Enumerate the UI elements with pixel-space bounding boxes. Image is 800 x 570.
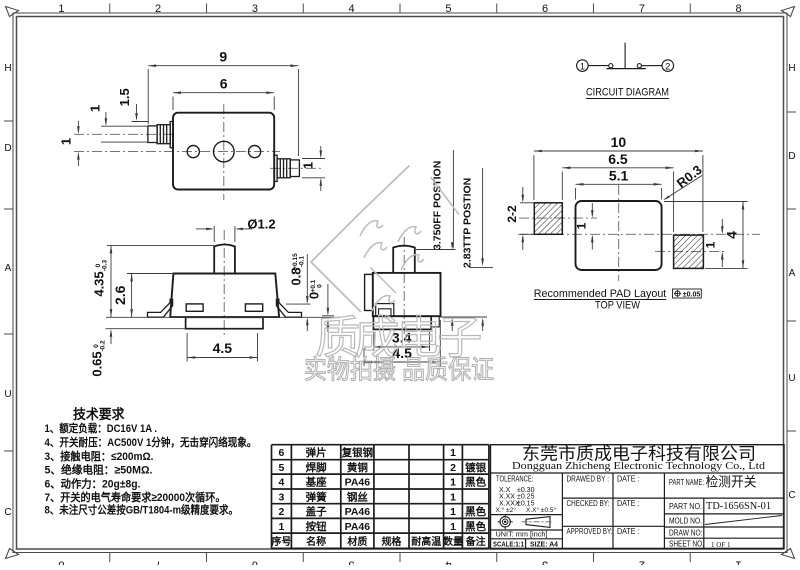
svg-text:-0.3: -0.3 bbox=[102, 260, 109, 272]
side view centerline bbox=[403, 237, 405, 334]
svg-text:±0.05: ±0.05 bbox=[683, 292, 701, 299]
side view inner pin bbox=[376, 304, 394, 317]
front view button bbox=[214, 245, 235, 274]
svg-text:H: H bbox=[788, 63, 795, 74]
dimension 1 right pad offset bbox=[704, 219, 724, 267]
circuit wire left bbox=[588, 65, 609, 67]
dimension 4 pad overall height bbox=[664, 202, 748, 269]
side view button bbox=[393, 246, 415, 273]
svg-text:5、绝缘电阻：≥50MΩ.: 5、绝缘电阻：≥50MΩ. bbox=[45, 463, 153, 477]
corner centering mark bottom-right bbox=[782, 549, 795, 559]
top view left stub centerline bbox=[74, 133, 176, 135]
front view bottom plate bbox=[186, 317, 263, 328]
top view right stub plug bbox=[274, 155, 299, 181]
top view centerline horizontal bbox=[74, 151, 280, 153]
svg-text:10: 10 bbox=[611, 134, 627, 150]
top view center hole bbox=[214, 141, 235, 162]
svg-text:实物拍摄 品质保证: 实物拍摄 品质保证 bbox=[304, 355, 494, 385]
position tolerance box bbox=[673, 289, 702, 299]
svg-text:盖子: 盖子 bbox=[306, 505, 327, 518]
top view left hole bbox=[187, 146, 199, 158]
top view right hole bbox=[249, 146, 261, 158]
svg-text:数量: 数量 bbox=[443, 535, 463, 548]
dimension 0.65 plate height bbox=[90, 329, 113, 377]
bottom zone tick marks bbox=[110, 553, 691, 563]
svg-text:8、未注尺寸公差按GB/T1804-m级精度要求。: 8、未注尺寸公差按GB/T1804-m级精度要求。 bbox=[45, 503, 239, 517]
svg-text:DATE :: DATE : bbox=[617, 527, 640, 536]
left zone letters bbox=[4, 63, 11, 518]
svg-text:A: A bbox=[5, 263, 12, 274]
svg-text:SIZE: A4: SIZE: A4 bbox=[530, 539, 559, 548]
radius leader R0.3 bbox=[663, 162, 704, 200]
svg-text:U: U bbox=[4, 389, 11, 400]
svg-text:7、开关的电气寿命要求≥20000次循环。: 7、开关的电气寿命要求≥20000次循环。 bbox=[45, 490, 226, 504]
svg-text:复银钢: 复银钢 bbox=[341, 446, 374, 459]
dimension 4.5 plate width bbox=[187, 333, 257, 362]
svg-text:名称: 名称 bbox=[306, 535, 326, 548]
svg-text:1: 1 bbox=[450, 447, 456, 459]
dimension 2-2 left pad bbox=[505, 187, 534, 250]
part name field bbox=[669, 475, 757, 490]
svg-text:A: A bbox=[789, 268, 796, 279]
svg-text:MOLD NO.: MOLD NO. bbox=[669, 517, 702, 526]
svg-text:1: 1 bbox=[575, 222, 589, 229]
corner centering mark bottom-left bbox=[6, 549, 19, 559]
circuit diagram label bbox=[586, 87, 669, 99]
front view right window bbox=[245, 304, 262, 311]
svg-text:1.5: 1.5 bbox=[117, 88, 132, 106]
side view body bbox=[373, 273, 441, 316]
svg-text:3: 3 bbox=[542, 559, 548, 566]
svg-text:3、接触电阻：≤200mΩ.: 3、接触电阻：≤200mΩ. bbox=[45, 449, 154, 463]
top view left stub plug bbox=[148, 122, 173, 148]
dimension 0.8 foot height bbox=[289, 253, 309, 331]
svg-text:DATE :: DATE : bbox=[617, 499, 640, 508]
svg-text:0: 0 bbox=[317, 284, 324, 288]
svg-text:2: 2 bbox=[450, 462, 456, 474]
svg-text:-0.2: -0.2 bbox=[100, 340, 107, 352]
pad layout horizontal centerline bbox=[518, 233, 760, 235]
svg-text:2: 2 bbox=[665, 61, 670, 72]
svg-text:1: 1 bbox=[450, 491, 456, 503]
scale and size row bbox=[493, 539, 559, 548]
pad layout vertical centerline bbox=[618, 185, 620, 281]
svg-text:5: 5 bbox=[279, 462, 285, 474]
side view right step bbox=[431, 316, 439, 327]
svg-text:7: 7 bbox=[639, 3, 645, 15]
svg-text:SHEET NO.: SHEET NO. bbox=[669, 539, 704, 548]
front view left leg bbox=[148, 299, 173, 317]
svg-text:1: 1 bbox=[450, 521, 456, 533]
svg-text:3: 3 bbox=[252, 3, 258, 15]
svg-text:7: 7 bbox=[155, 559, 161, 566]
svg-text:1: 1 bbox=[580, 61, 585, 72]
svg-text:5.1: 5.1 bbox=[609, 167, 629, 183]
svg-text:1: 1 bbox=[279, 521, 285, 533]
seating plane line bbox=[106, 316, 340, 318]
svg-text:TOLERANCE:: TOLERANCE: bbox=[496, 475, 534, 484]
svg-text:镀银: 镀银 bbox=[465, 461, 486, 474]
svg-text:4: 4 bbox=[724, 231, 740, 239]
svg-text:CHECKED BY:: CHECKED BY: bbox=[567, 499, 610, 508]
dimension 4.35 text with tolerance bbox=[92, 260, 109, 297]
watermark logo chevron bbox=[311, 166, 459, 313]
sheet no field bbox=[669, 539, 731, 549]
svg-text:6: 6 bbox=[542, 3, 548, 15]
front view right leg bbox=[276, 299, 301, 317]
svg-text:3: 3 bbox=[279, 491, 285, 503]
svg-text:2.83TTP POSTION: 2.83TTP POSTION bbox=[461, 178, 473, 268]
svg-text:X.° ±2°: X.° ±2° bbox=[496, 506, 517, 514]
button top extension line bbox=[416, 249, 456, 251]
svg-text:PA46: PA46 bbox=[345, 506, 371, 518]
svg-text:2.6: 2.6 bbox=[112, 285, 128, 305]
svg-text:PART NAME:: PART NAME: bbox=[669, 478, 704, 487]
svg-text:2: 2 bbox=[639, 559, 645, 566]
dimension 0 coplanarity bbox=[307, 279, 335, 332]
pressed position line bbox=[470, 266, 493, 268]
svg-text:U: U bbox=[788, 373, 795, 384]
svg-text:C: C bbox=[788, 490, 795, 501]
svg-text:UNIT: mm [inch]: UNIT: mm [inch] bbox=[496, 530, 548, 539]
svg-text:6: 6 bbox=[279, 447, 285, 459]
plate bottom extension line bbox=[106, 328, 187, 330]
signature rows bbox=[567, 475, 640, 536]
part no field bbox=[669, 501, 771, 512]
circuit wire right bbox=[641, 65, 662, 67]
dimension 5.1 body width pad bbox=[576, 167, 662, 199]
svg-text:D: D bbox=[4, 143, 11, 154]
svg-text:1: 1 bbox=[736, 559, 742, 566]
svg-text:基座: 基座 bbox=[305, 476, 327, 489]
dimension 1 right stub bbox=[301, 146, 326, 191]
front view left window bbox=[186, 304, 203, 311]
svg-text:2: 2 bbox=[279, 506, 285, 518]
side view bracket plate bbox=[365, 274, 373, 310]
dimension 3.4 protrusion width bbox=[374, 330, 430, 352]
svg-text:1: 1 bbox=[450, 506, 456, 518]
title block outline bbox=[491, 445, 785, 549]
right pad centerline bbox=[655, 251, 727, 253]
svg-text:弹片: 弹片 bbox=[306, 446, 327, 459]
front view body bbox=[170, 274, 279, 318]
dimension 1.5 stub offset bbox=[117, 88, 148, 121]
technical requirements list bbox=[45, 421, 257, 517]
svg-text:弹簧: 弹簧 bbox=[306, 490, 327, 503]
svg-text:5: 5 bbox=[349, 559, 355, 566]
svg-text:3.750FF POSTION: 3.750FF POSTION bbox=[432, 161, 444, 250]
top view right stub centerline bbox=[270, 167, 322, 169]
svg-text:1、额定负载：DC16V 1A .: 1、额定负载：DC16V 1A . bbox=[45, 421, 158, 435]
svg-text:4: 4 bbox=[445, 559, 451, 566]
dimension 1 left pad offset bbox=[575, 203, 594, 250]
right solder pad hatched bbox=[674, 235, 704, 268]
circuit actuator line bbox=[624, 43, 626, 69]
left pad centerline bbox=[519, 217, 597, 219]
top view switch body bbox=[173, 113, 274, 190]
corner centering mark top-left bbox=[6, 7, 19, 17]
svg-text:2: 2 bbox=[155, 3, 161, 15]
projection symbol bbox=[498, 514, 554, 529]
recommended pad layout label bbox=[534, 288, 667, 300]
svg-text:SCALE:1:1: SCALE:1:1 bbox=[493, 539, 524, 548]
svg-text:4.35: 4.35 bbox=[92, 271, 107, 296]
svg-text:8: 8 bbox=[58, 559, 64, 566]
top zone digits 1-8 bbox=[58, 3, 741, 15]
svg-text:1: 1 bbox=[301, 162, 316, 169]
label 2.83TTP POSTION bbox=[461, 168, 484, 268]
right zone letters bbox=[788, 63, 795, 501]
svg-text:检测开关: 检测开关 bbox=[706, 475, 757, 490]
svg-text:Dongguan Zhicheng Electronic T: Dongguan Zhicheng Electronic Technology … bbox=[512, 461, 765, 472]
body bottom extension line right bbox=[441, 316, 488, 318]
svg-text:DATE :: DATE : bbox=[617, 475, 640, 484]
svg-text:CIRCUIT DIAGRAM: CIRCUIT DIAGRAM bbox=[586, 87, 669, 99]
svg-text:按钮: 按钮 bbox=[306, 520, 327, 533]
side view bottom protrusion bbox=[373, 316, 431, 329]
svg-text:D: D bbox=[788, 151, 795, 162]
dimension 10 pad overall bbox=[534, 134, 703, 232]
dimension 6.5 pads inner span bbox=[562, 151, 673, 232]
dimension 1 lower left bbox=[59, 121, 149, 166]
svg-text:序号: 序号 bbox=[271, 535, 291, 548]
svg-text:4: 4 bbox=[349, 3, 355, 15]
front view centerline bbox=[223, 230, 225, 336]
svg-text:钢丝: 钢丝 bbox=[347, 490, 368, 503]
circuit contact right bbox=[637, 64, 641, 68]
svg-text:黑色: 黑色 bbox=[465, 520, 486, 533]
free position arrow up left bbox=[451, 318, 454, 331]
corner centering mark top-right bbox=[782, 7, 795, 17]
dimension 4.5 side body width bbox=[364, 320, 440, 366]
svg-text:9: 9 bbox=[219, 49, 227, 65]
svg-text:Recommended PAD Layout: Recommended PAD Layout bbox=[534, 288, 667, 300]
svg-text:1: 1 bbox=[88, 105, 103, 112]
circuit movable contact bar bbox=[606, 68, 645, 70]
svg-text:6.5: 6.5 bbox=[608, 151, 628, 167]
switch outline pad layout bbox=[576, 201, 662, 270]
left solder pad hatched bbox=[534, 203, 562, 235]
svg-text:黄铜: 黄铜 bbox=[347, 461, 368, 474]
svg-text:4: 4 bbox=[279, 477, 285, 489]
svg-text:1: 1 bbox=[58, 3, 64, 15]
svg-text:6: 6 bbox=[220, 76, 228, 92]
svg-text:APPROVED BY:: APPROVED BY: bbox=[567, 527, 613, 536]
svg-text:PART NO.: PART NO. bbox=[669, 502, 702, 511]
tolerance text block bbox=[496, 475, 557, 514]
free position arrow up right bbox=[481, 318, 484, 331]
svg-text:6: 6 bbox=[252, 559, 258, 566]
svg-text:PA46: PA46 bbox=[345, 521, 371, 533]
svg-text:5: 5 bbox=[445, 3, 451, 15]
dimension dia 1.2 button bbox=[196, 217, 276, 243]
watermark swoosh curls bbox=[360, 221, 424, 311]
svg-text:黑色: 黑色 bbox=[465, 505, 486, 518]
svg-text:TD-1656SN-01: TD-1656SN-01 bbox=[706, 501, 771, 512]
svg-text:1: 1 bbox=[450, 477, 456, 489]
top zone tick marks bbox=[110, 4, 691, 14]
svg-text:耐高温: 耐高温 bbox=[411, 535, 441, 548]
foot top extension line bbox=[286, 303, 311, 305]
dimension 4.35 height bbox=[107, 245, 214, 317]
svg-text:PA46: PA46 bbox=[345, 477, 371, 489]
svg-text:TOP VIEW: TOP VIEW bbox=[595, 300, 641, 312]
svg-text:Ø1.2: Ø1.2 bbox=[247, 217, 275, 232]
title block grid lines bbox=[491, 473, 785, 549]
svg-text:X.X° ±0.5°: X.X° ±0.5° bbox=[526, 506, 556, 514]
svg-text:DRAWED BY :: DRAWED BY : bbox=[567, 475, 610, 484]
svg-text:1 OF 1: 1 OF 1 bbox=[711, 541, 731, 549]
svg-text:8: 8 bbox=[736, 3, 742, 15]
svg-text:规格: 规格 bbox=[381, 535, 402, 548]
label 3.750FF POSTION bbox=[432, 150, 454, 250]
dimension 9 overall width bbox=[148, 49, 298, 156]
svg-text:DRAW NO:: DRAW NO: bbox=[669, 528, 703, 537]
svg-text:-0.1: -0.1 bbox=[299, 256, 306, 268]
right zone ticks bbox=[787, 112, 796, 431]
svg-text:黑色: 黑色 bbox=[465, 476, 486, 489]
svg-text:0.65: 0.65 bbox=[90, 351, 105, 376]
svg-text:2-2: 2-2 bbox=[505, 205, 519, 223]
dimension 6 body width bbox=[173, 76, 274, 110]
mold no field bbox=[669, 516, 782, 526]
parts table contents bbox=[271, 446, 486, 548]
svg-text:C: C bbox=[4, 507, 11, 518]
svg-text:6、动作力：20g±8g.: 6、动作力：20g±8g. bbox=[45, 476, 141, 490]
svg-text:材质: 材质 bbox=[347, 535, 367, 548]
dimension 1 upper left bbox=[88, 105, 149, 126]
svg-text:技术要求: 技术要求 bbox=[73, 406, 125, 422]
circuit contact left bbox=[609, 64, 613, 68]
svg-text:4.5: 4.5 bbox=[213, 340, 233, 356]
svg-text:4、开关耐压：AC500V 1分钟，无击穿闪络现象。: 4、开关耐压：AC500V 1分钟，无击穿闪络现象。 bbox=[45, 435, 257, 449]
svg-text:1: 1 bbox=[704, 241, 718, 248]
svg-text:H: H bbox=[4, 63, 11, 74]
circuit terminal 2 bbox=[662, 60, 674, 73]
svg-text:焊脚: 焊脚 bbox=[306, 461, 327, 474]
parts table grid bbox=[272, 445, 489, 549]
svg-text:1: 1 bbox=[59, 138, 74, 145]
dimension 2.6 body height bbox=[112, 274, 174, 318]
top view centerline vertical bbox=[223, 104, 225, 200]
circuit terminal 1 bbox=[577, 60, 589, 73]
bottom zone digits 8-1 rotated bbox=[58, 559, 741, 570]
left zone ticks bbox=[4, 121, 13, 451]
svg-text:备注: 备注 bbox=[465, 535, 486, 548]
